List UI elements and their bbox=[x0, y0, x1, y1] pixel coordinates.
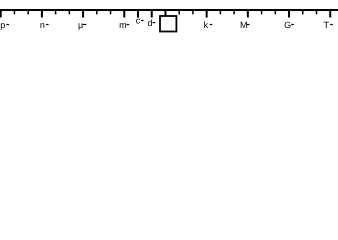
svg-text:p: p bbox=[0, 20, 5, 30]
svg-text:k: k bbox=[204, 20, 209, 30]
svg-text:T: T bbox=[324, 20, 330, 30]
svg-text:d: d bbox=[148, 18, 153, 28]
svg-text:c: c bbox=[136, 16, 141, 26]
svg-text:µ: µ bbox=[78, 20, 83, 30]
svg-text:m: m bbox=[119, 20, 127, 30]
svg-text:n: n bbox=[40, 20, 45, 30]
svg-text:G: G bbox=[284, 20, 291, 30]
svg-text:M: M bbox=[240, 20, 248, 30]
